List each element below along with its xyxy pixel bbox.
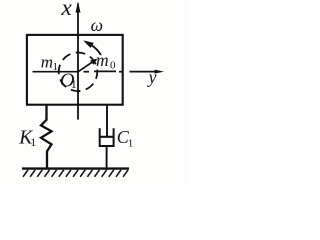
svg-text:x: x xyxy=(61,0,73,20)
eccentric mass m0 radius arm arrow xyxy=(78,60,95,72)
y-axis arrowhead xyxy=(155,70,164,74)
ground line xyxy=(22,167,129,169)
omega rotation arc arrow shaft xyxy=(92,45,102,55)
dashed rotor circle around O1 xyxy=(59,53,98,92)
m0 arrow barbs xyxy=(91,60,96,64)
svg-text:m: m xyxy=(96,50,109,70)
damper C1 cylinder cup xyxy=(100,128,114,146)
svg-text:m: m xyxy=(41,52,53,71)
spring K1 (zigzag) xyxy=(41,105,52,169)
damper C1 piston plate xyxy=(101,136,113,138)
x-axis line through block center xyxy=(77,4,79,120)
mass block M (rigid body rectangle) xyxy=(27,35,123,105)
damper C1 upper rod xyxy=(106,105,108,138)
omega rotation arrowhead xyxy=(83,40,94,48)
center line long dash under m0 xyxy=(94,70,116,72)
svg-text:1: 1 xyxy=(71,77,77,91)
svg-text:0: 0 xyxy=(110,59,116,71)
svg-text:1: 1 xyxy=(53,61,59,73)
svg-text:1: 1 xyxy=(128,137,134,149)
ground hatching xyxy=(23,170,128,177)
svg-text:ω: ω xyxy=(91,15,103,35)
center line dash 1 xyxy=(84,71,90,73)
center line dash to box edge xyxy=(119,71,123,73)
damper C1 lower rod xyxy=(106,146,108,169)
svg-text:y: y xyxy=(147,67,157,87)
x-axis arrowhead xyxy=(76,2,81,13)
svg-text:1: 1 xyxy=(30,135,36,149)
center line solid left part xyxy=(33,71,79,73)
y-axis line xyxy=(130,71,159,73)
